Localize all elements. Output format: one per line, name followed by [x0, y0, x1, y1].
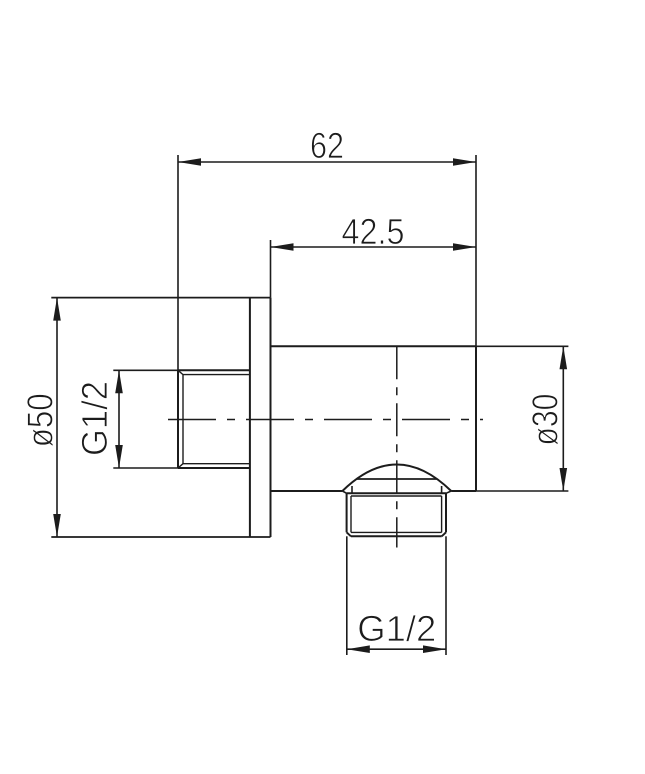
- cylinder right face: [475, 346, 477, 491]
- dimension line 42.5: [271, 246, 477, 248]
- outlet thread outer right: [445, 493, 447, 532]
- arrowhead 42.5 left: [271, 243, 294, 251]
- extension line 42.5 left: [270, 240, 272, 298]
- plate back face: [249, 298, 251, 537]
- centerline vertical outlet: [396, 346, 398, 547]
- extension line dia30 bottom: [476, 490, 568, 492]
- svg-text:ø30: ø30: [525, 394, 566, 446]
- extension line 62/42.5 right: [475, 155, 477, 346]
- extension line dia30 top: [476, 345, 568, 347]
- arrowhead G1/2 outlet right: [423, 645, 446, 653]
- cylinder bottom edge left part: [271, 490, 343, 492]
- outlet thread outer bottom: [351, 535, 442, 537]
- cylinder top edge: [271, 345, 477, 347]
- arrowhead dia50 top: [53, 298, 61, 321]
- plate front face: [270, 298, 272, 537]
- inlet thread box outer bottom: [178, 467, 250, 469]
- arrowhead G1/2 outlet left: [347, 645, 370, 653]
- dimension line G1/2 inlet: [118, 370, 120, 468]
- arrowhead dia50 bottom: [53, 514, 61, 537]
- dimension line dia30: [562, 346, 564, 491]
- inlet chamfer bottom-left: [178, 464, 183, 468]
- svg-text:G1/2: G1/2: [357, 608, 436, 649]
- arrowhead 62 left: [178, 158, 201, 166]
- outlet thread root right: [441, 496, 443, 532]
- inlet chamfer top-left: [178, 370, 183, 374]
- extension line G1/2 outlet right: [445, 536, 447, 655]
- outlet shoulder chord: [357, 478, 437, 480]
- plate top edge with ext: [51, 297, 270, 299]
- outlet thread outer left: [346, 493, 348, 532]
- inlet thread box outer top: [178, 369, 250, 371]
- svg-text:G1/2: G1/2: [74, 381, 115, 456]
- inlet thread root top: [183, 374, 250, 376]
- arrowhead dia30 bottom: [560, 468, 568, 491]
- svg-text:62: 62: [310, 125, 344, 166]
- extension line G1/2 outlet left: [346, 536, 348, 655]
- outlet thread chamfer bottom-right: [442, 532, 446, 536]
- arrowhead 62 right: [453, 158, 476, 166]
- outlet thread root bottom: [351, 531, 442, 533]
- inlet thread box outer left: [177, 370, 179, 468]
- outlet thread outer top: [347, 492, 446, 494]
- arrowhead G1/2 inlet top: [115, 370, 123, 393]
- centerline horizontal: [168, 419, 483, 421]
- svg-text:42.5: 42.5: [342, 211, 405, 252]
- outlet flank right: [441, 486, 443, 493]
- dimension line dia50: [56, 298, 58, 537]
- arrowhead dia30 top: [560, 346, 568, 369]
- dimension line G1/2 outlet: [347, 648, 446, 650]
- outlet thread root left: [350, 496, 352, 532]
- outlet saddle dome: [342, 465, 451, 492]
- plate bottom edge with ext: [51, 536, 270, 538]
- outlet flank left: [351, 486, 353, 493]
- dimension line 62: [178, 161, 476, 163]
- inlet thread root left: [182, 375, 184, 464]
- cylinder bottom edge right part: [451, 490, 476, 492]
- svg-text:ø50: ø50: [20, 393, 61, 447]
- arrowhead 42.5 right: [453, 243, 476, 251]
- outlet thread chamfer bottom-left: [347, 532, 351, 536]
- extension line G1/2 inlet top: [113, 369, 178, 371]
- inlet thread root bottom: [183, 463, 250, 465]
- outlet thread root top: [351, 495, 442, 497]
- extension line G1/2 inlet bottom: [113, 467, 178, 469]
- outlet chamfer top-right: [446, 491, 451, 493]
- extension line 62 left: [177, 155, 179, 370]
- outlet chamfer top-left: [342, 491, 346, 493]
- arrowhead G1/2 inlet bottom: [115, 445, 123, 468]
